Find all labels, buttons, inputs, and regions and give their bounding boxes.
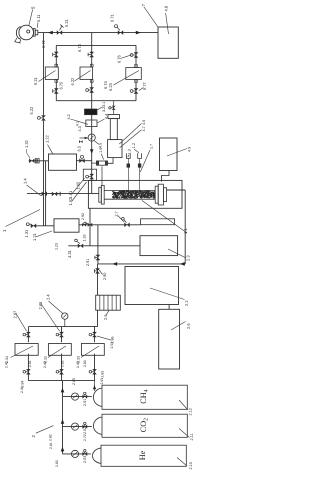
label 2.7 <box>115 211 125 222</box>
label 1.62 <box>68 182 87 206</box>
tube furnace 1 outline <box>88 180 182 208</box>
svg-text:2.01: 2.01 <box>83 399 87 406</box>
wire line A continues <box>43 121 45 226</box>
valve 6.72 <box>53 52 59 57</box>
gas cylinder CH4 <box>93 385 188 410</box>
svg-text:6.23: 6.23 <box>108 82 113 91</box>
svg-text:2.03: 2.03 <box>83 456 87 463</box>
wire outlet down <box>184 190 186 264</box>
gas rail lower <box>28 380 94 382</box>
svg-text:1.1: 1.1 <box>183 228 188 234</box>
reactor tube <box>104 190 155 199</box>
drop from main line to rail <box>91 33 93 46</box>
label 5 <box>29 6 36 26</box>
label 3.1 <box>97 102 106 110</box>
svg-text:1.22: 1.22 <box>44 134 49 143</box>
saturator box 2.6 <box>159 309 180 369</box>
cylinder valve 2.02 <box>82 422 87 429</box>
svg-text:3.2: 3.2 <box>102 107 106 112</box>
cartridge 1.9 <box>97 161 108 165</box>
svg-text:1.2: 1.2 <box>132 143 136 148</box>
valve 2.81 <box>23 332 31 337</box>
label 1.22 <box>44 134 53 154</box>
svg-text:2.5: 2.5 <box>103 314 108 320</box>
CO2 supply line <box>63 426 92 428</box>
svg-text:1.7: 1.7 <box>150 144 154 149</box>
check valve 2.01a <box>71 393 78 400</box>
label 4.4 <box>97 114 108 123</box>
svg-text:4.7: 4.7 <box>142 126 146 131</box>
feed line into reactor <box>61 192 99 194</box>
flow arrow left 2 <box>180 262 185 266</box>
branch line 1 <box>55 45 57 67</box>
CH4 stub wire <box>94 381 96 391</box>
cylinder collector wire <box>62 381 64 454</box>
svg-text:2.82: 2.82 <box>49 434 53 441</box>
svg-text:5.21: 5.21 <box>64 18 69 27</box>
svg-text:6.71: 6.71 <box>110 13 115 22</box>
flow arrow up stub <box>93 385 96 389</box>
label 2.4 <box>46 294 63 314</box>
svg-text:2.53: 2.53 <box>110 342 114 349</box>
reactor outlet line <box>167 189 186 191</box>
gas branch 2 wire <box>61 327 63 343</box>
label 6.77 <box>139 81 147 90</box>
valve 6.75 <box>53 88 59 93</box>
label 2.87 <box>13 310 27 331</box>
label 1.21 <box>32 231 52 241</box>
valve 1.32 <box>29 159 49 164</box>
svg-text:2.6: 2.6 <box>186 323 191 329</box>
label 1.3 <box>127 149 131 157</box>
label 1.7 <box>140 144 153 172</box>
svg-text:2.43: 2.43 <box>76 361 80 368</box>
cylinder valve 2.03 <box>82 450 87 457</box>
vacuum pump 5 <box>14 25 33 43</box>
svg-text:2.92: 2.92 <box>81 213 85 220</box>
svg-text:1.62: 1.62 <box>68 197 73 206</box>
thermocouple 1.2 <box>126 153 130 190</box>
flow arrow left 1 <box>112 262 117 266</box>
svg-text:5.11: 5.11 <box>36 14 41 22</box>
main vacuum line <box>38 32 158 34</box>
svg-text:1.32: 1.32 <box>24 139 29 148</box>
svg-text:1.23: 1.23 <box>55 243 59 250</box>
thermocouple 1.3 <box>137 153 141 190</box>
wire to cartridge <box>92 162 97 164</box>
valve 6.74 <box>86 87 94 92</box>
svg-text:2.41: 2.41 <box>20 386 24 393</box>
svg-text:6.21: 6.21 <box>33 76 38 85</box>
svg-text:2.3: 2.3 <box>186 255 191 261</box>
valve 2.7 <box>122 218 130 228</box>
condenser box 1.22 <box>49 154 77 170</box>
svg-text:2.10: 2.10 <box>189 462 193 469</box>
label 2.88 <box>38 301 60 331</box>
product transfer line <box>98 263 185 265</box>
flow arrow up CO2 <box>61 419 65 424</box>
label 2.2 <box>150 288 189 306</box>
svg-text:4.2: 4.2 <box>67 114 71 119</box>
mass flow controller 6.23 <box>114 68 142 86</box>
label 1.61 <box>68 178 85 198</box>
label 4.7 <box>120 126 146 148</box>
svg-text:2.11: 2.11 <box>190 433 194 440</box>
svg-text:4.6: 4.6 <box>142 120 146 125</box>
label 7 <box>141 4 158 27</box>
svg-text:1.33: 1.33 <box>83 235 87 242</box>
svg-text:4.3: 4.3 <box>78 126 82 131</box>
svg-text:2.4: 2.4 <box>46 294 51 300</box>
cylinder valve 2.01 <box>82 392 87 399</box>
connector box 2.2 to 2.6 <box>168 305 170 310</box>
svg-text:2.83: 2.83 <box>83 360 87 367</box>
gas branch 3 lower wire <box>94 354 96 381</box>
svg-text:1.3: 1.3 <box>127 149 131 154</box>
pressure gauge 2.4 <box>62 313 68 327</box>
gas branch 1 lower wire <box>27 354 29 381</box>
valve 2.92 <box>84 222 93 227</box>
svg-text:2.90: 2.90 <box>103 273 107 280</box>
small valve 4.3 <box>79 140 83 143</box>
manifold top rail <box>56 44 136 46</box>
svg-text:2.93: 2.93 <box>100 378 104 385</box>
wire mid vertical from manifold <box>91 101 93 194</box>
label 2.86 <box>97 336 115 344</box>
valve 2.82 <box>56 332 64 337</box>
valve 6.76 <box>130 52 138 57</box>
svg-text:He: He <box>138 450 147 460</box>
gas branch 3 wire <box>94 327 96 343</box>
gas cylinder CO2 <box>93 414 189 437</box>
valve 6.77 <box>130 88 138 93</box>
svg-text:4.31: 4.31 <box>67 249 72 258</box>
svg-text:2.85: 2.85 <box>72 378 76 385</box>
valve 2.86 <box>89 369 97 374</box>
svg-text:4.1: 4.1 <box>76 121 80 126</box>
label 1.2 <box>132 143 139 153</box>
svg-text:1.4: 1.4 <box>23 178 28 184</box>
label 2 (gas supply system) <box>31 426 54 438</box>
svg-text:1.9: 1.9 <box>99 148 103 153</box>
valve 5.21 <box>57 25 64 35</box>
gas cylinder He <box>92 445 187 466</box>
wire from main line down (line A) <box>43 33 45 116</box>
manifold bottom rail <box>56 100 136 102</box>
svg-text:6.22: 6.22 <box>70 77 75 86</box>
line to separator 2.3 <box>68 245 140 247</box>
filter 4.4 <box>86 120 97 127</box>
svg-text:2.72: 2.72 <box>83 434 87 441</box>
check valve 2.02a <box>71 423 78 430</box>
label 4.2 <box>67 114 88 124</box>
wire preheater pipe down <box>97 225 99 264</box>
CH4 supply line <box>63 396 92 398</box>
svg-text:2.41: 2.41 <box>5 361 9 368</box>
wire coil to gas rail <box>97 310 99 326</box>
valve 6.5 <box>77 155 92 163</box>
column bottom pipe <box>108 158 113 164</box>
feed line left segment <box>27 192 61 194</box>
valve 6.71 <box>115 25 124 35</box>
valve 2.91 <box>95 255 100 260</box>
svg-text:2.02: 2.02 <box>83 427 87 434</box>
mass flow controller 6.21 <box>39 67 59 82</box>
svg-text:2.12: 2.12 <box>189 408 193 415</box>
condenser box 4.9 <box>160 138 178 171</box>
svg-text:2.2: 2.2 <box>184 300 189 306</box>
bypass box 1.21 <box>54 219 79 232</box>
svg-text:2.83: 2.83 <box>101 371 105 378</box>
valve 1.63 <box>42 192 47 197</box>
column tube <box>110 119 117 140</box>
valve 5.22 <box>38 115 46 120</box>
fitting valve at box 1.21 outlet <box>79 223 141 227</box>
pressure gauge 4.5 <box>88 134 95 141</box>
label 2.6 <box>171 322 191 331</box>
svg-text:2.91: 2.91 <box>86 259 90 266</box>
reactor left flange <box>99 185 104 204</box>
svg-text:2.83: 2.83 <box>55 460 59 467</box>
svg-text:1.65: 1.65 <box>75 181 80 190</box>
reactor right flange <box>155 184 166 205</box>
MFC 2.33 <box>81 344 104 358</box>
label 4.8 <box>164 5 169 34</box>
nub fittings branch 1 <box>55 64 58 82</box>
gas branch 1 wire <box>27 327 29 343</box>
svg-text:6.75: 6.75 <box>59 81 64 90</box>
svg-text:3.1: 3.1 <box>102 102 106 107</box>
cold trap 3.2 (filled) <box>85 109 98 115</box>
preheater box <box>141 219 175 225</box>
valve housing box <box>83 169 96 180</box>
He supply line <box>63 453 91 455</box>
flow arrow into pump <box>48 31 53 35</box>
vent valve 4.31 <box>75 239 84 248</box>
svg-text:4.9: 4.9 <box>188 147 192 152</box>
MFC 2.31 <box>11 344 39 358</box>
svg-text:4.5: 4.5 <box>99 143 103 148</box>
mixing coil 2.5 <box>96 295 121 310</box>
valve 6.73 <box>88 52 94 57</box>
flow arrow to GC <box>136 31 141 35</box>
label 4.6 <box>119 120 146 144</box>
mass flow controller 6.22 <box>75 67 93 81</box>
flow arrow up He <box>61 447 65 452</box>
valve 2.83 <box>89 332 97 337</box>
stub from rail to column <box>113 101 115 115</box>
feed valve 6.6 <box>86 174 94 179</box>
wire down to coil <box>97 264 99 295</box>
svg-text:6.73: 6.73 <box>77 43 82 52</box>
MFC 2.32 <box>48 344 71 358</box>
svg-text:1.61: 1.61 <box>68 190 73 199</box>
label 1 (reactor system) <box>2 210 40 233</box>
column base box <box>108 140 122 158</box>
catalyst bed <box>112 190 155 199</box>
gas rail upper <box>28 326 97 328</box>
pipe box 4.9 to furnace <box>162 171 170 182</box>
svg-text:6.5: 6.5 <box>77 145 82 151</box>
label 1.32 <box>24 139 30 158</box>
pump outlet flange <box>33 29 37 37</box>
analysis box 2.2 <box>125 267 179 305</box>
label 1.1 <box>142 201 188 235</box>
nub fittings branch 3 <box>135 65 138 83</box>
valve 1.64 with side tee <box>52 192 60 197</box>
nub fittings branch 2 <box>90 64 93 82</box>
wire furnace outlet down <box>89 208 91 246</box>
branch line 2 <box>91 45 93 67</box>
svg-text:6.77: 6.77 <box>142 81 147 90</box>
flow arrow up CH4 <box>61 388 65 393</box>
svg-text:5.22: 5.22 <box>29 106 34 115</box>
branch line 3 <box>135 45 137 67</box>
svg-text:1.31: 1.31 <box>24 229 29 238</box>
check valve 2.03a <box>71 450 78 457</box>
flow arrow down <box>90 149 94 154</box>
wire cartridge down to reactor inlet <box>101 166 103 185</box>
svg-text:2.42: 2.42 <box>43 361 47 368</box>
label 5.11 <box>36 14 41 28</box>
label 2.3 <box>168 249 191 261</box>
gas branch 2 lower wire <box>61 354 63 381</box>
label 1.9 <box>99 148 104 160</box>
inlet arrow to gauge <box>80 137 89 140</box>
label 4.9 <box>167 147 192 156</box>
valve 2.85 <box>56 369 64 374</box>
label 6.76 <box>117 54 132 63</box>
label 4.5 <box>94 140 103 148</box>
wire line B down <box>45 161 47 226</box>
column cap <box>108 115 120 119</box>
separator box 2.3 <box>140 236 178 256</box>
union flanges <box>35 159 39 163</box>
valve 1.31 <box>26 223 54 228</box>
label 2.90 <box>99 269 107 280</box>
valve 2.90 <box>95 268 100 273</box>
small valve 2.1 <box>109 106 116 110</box>
label 1.4 <box>23 178 42 196</box>
svg-text:4.8: 4.8 <box>164 5 169 11</box>
label 2.5 <box>103 311 109 320</box>
svg-text:2.81: 2.81 <box>49 442 53 449</box>
valve 2.84 <box>23 369 31 374</box>
gas chromatograph box 8 <box>158 27 178 58</box>
